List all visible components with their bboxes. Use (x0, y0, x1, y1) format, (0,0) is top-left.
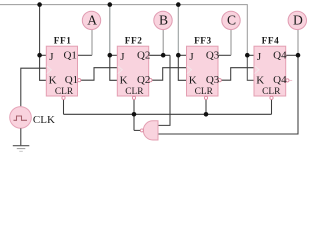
svg-text:CLR: CLR (262, 87, 281, 97)
svg-text:FF3: FF3 (194, 36, 212, 46)
svg-text:J: J (189, 51, 194, 63)
svg-text:Q3: Q3 (206, 74, 220, 86)
svg-text:CLR: CLR (55, 87, 74, 97)
svg-text:Q1: Q1 (63, 50, 76, 62)
svg-text:J: J (120, 51, 125, 63)
svg-text:FF2: FF2 (125, 36, 143, 46)
svg-text:C: C (227, 13, 236, 28)
svg-text:CLR: CLR (195, 87, 214, 97)
svg-text:Q3: Q3 (206, 50, 220, 62)
svg-text:B: B (159, 13, 168, 28)
svg-text:K: K (256, 74, 264, 86)
svg-text:CLR: CLR (125, 87, 144, 97)
svg-text:Q4: Q4 (273, 74, 287, 86)
svg-text:K: K (120, 74, 128, 86)
svg-text:Q2: Q2 (137, 50, 150, 62)
svg-text:A: A (87, 13, 97, 28)
svg-text:Q2: Q2 (137, 74, 150, 86)
svg-text:Q4: Q4 (273, 50, 287, 62)
svg-text:K: K (189, 74, 197, 86)
svg-text:D: D (293, 13, 303, 28)
svg-text:FF1: FF1 (54, 36, 72, 46)
svg-text:J: J (257, 51, 262, 63)
svg-text:FF4: FF4 (262, 36, 280, 46)
svg-text:CLK: CLK (33, 114, 55, 126)
svg-text:K: K (49, 74, 57, 86)
svg-text:J: J (49, 51, 54, 63)
svg-text:Q1: Q1 (65, 74, 78, 86)
